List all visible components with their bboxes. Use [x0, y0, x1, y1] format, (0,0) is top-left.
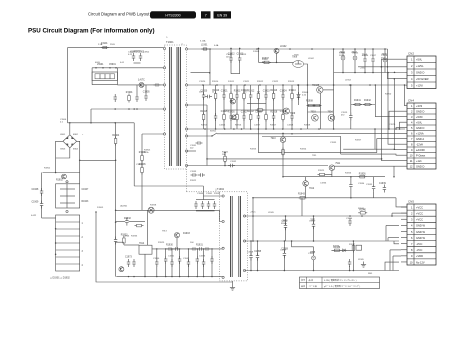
- junction J box2 p2: [55, 242, 57, 244]
- wire aux left vert: [141, 134, 143, 210]
- wire mvcc cn5 7: [390, 249, 401, 251]
- wire lamp wire: [116, 210, 222, 221]
- svg-text:C1936: C1936: [320, 183, 327, 185]
- svg-text:R1902: R1902: [56, 180, 63, 182]
- resistor R1941: [353, 103, 362, 106]
- wire c1917 top: [372, 49, 374, 56]
- wire T1 pin5 wire: [142, 133, 163, 135]
- wire v350 reg: [350, 177, 352, 182]
- T1901 pin 11: [185, 150, 187, 152]
- svg-text:CN2: CN2: [408, 52, 414, 56]
- link L1901: [201, 48, 209, 50]
- resistor Rx8: [265, 113, 268, 122]
- wire c1916 bot: [364, 64, 366, 73]
- wire forest column 8: [265, 85, 267, 129]
- svg-text:7904: 7904: [328, 112, 334, 114]
- svg-text:C1943: C1943: [199, 256, 206, 258]
- wire cap column 4: [188, 249, 190, 277]
- svg-text:R1930: R1930: [166, 244, 173, 246]
- junction dots on low rail: [204, 128, 334, 130]
- wire bus to CN4 12b: [393, 166, 395, 177]
- svg-text:CN4: CN4: [408, 99, 414, 103]
- wire cap C1901 bot tie: [134, 62, 141, 64]
- svg-text:C1966: C1966: [123, 236, 130, 238]
- snubber box 7901: [56, 184, 80, 208]
- svg-text:7909: 7909: [290, 113, 296, 115]
- svg-text:C1942: C1942: [183, 258, 190, 260]
- svg-text:+12v: +12v: [416, 159, 422, 163]
- junction J box2 p3: [55, 254, 57, 256]
- transformer T1902: [215, 188, 241, 277]
- snubber internals: [60, 184, 75, 208]
- svg-text:C1932: C1932: [230, 161, 237, 163]
- resistor Rx4: [236, 113, 239, 122]
- junction J mv1: [250, 270, 252, 272]
- junction J d1907: [298, 84, 300, 86]
- svg-text:C1933: C1933: [190, 171, 197, 173]
- svg-text:R1913: R1913: [270, 90, 277, 92]
- wire cn5 pin2 v: [391, 213, 393, 216]
- svg-text:+5VL: +5VL: [416, 120, 423, 124]
- label 7911: [335, 163, 341, 165]
- diode D1907: [297, 92, 300, 100]
- wire snub tie bot: [231, 73, 240, 75]
- wire return to t2 area: [134, 185, 203, 187]
- wire v253: [252, 198, 254, 241]
- svg-text:GND D: GND D: [416, 109, 424, 113]
- junction J cn2 394: [394, 72, 396, 74]
- junction J vcc1: [285, 215, 287, 217]
- label rung3: [82, 251, 84, 253]
- connector CN5: [407, 200, 436, 266]
- IC7902 internal rungs: [56, 222, 80, 264]
- svg-text:R1940: R1940: [358, 208, 365, 210]
- svg-text:D1903: D1903: [183, 233, 190, 235]
- junction bridge bus J3: [114, 122, 116, 124]
- wire pin10 switch wire: [187, 135, 213, 137]
- svg-text:6903: 6903: [60, 149, 66, 151]
- capacitor C1972: [204, 247, 211, 250]
- capacitor C1934: [349, 182, 352, 190]
- wire primary lower bus: [91, 108, 165, 110]
- junction J r1921a: [224, 152, 226, 154]
- svg-text:C1923: C1923: [263, 90, 270, 92]
- capacitor C1921: [221, 90, 228, 100]
- wire c1955 bot: [313, 262, 315, 270]
- capacitor C1966: [114, 237, 117, 245]
- wire ic feed: [116, 241, 124, 243]
- svg-text:C1901: C1901: [128, 52, 135, 54]
- wire mvcc cn5 8b: [392, 256, 394, 271]
- svg-text:GND D: GND D: [416, 126, 424, 130]
- wire c1918 top: [384, 49, 386, 56]
- svg-text:0.6A: 0.6A: [214, 44, 219, 47]
- transistor 7904: [328, 115, 335, 122]
- svg-text:C1912: C1912: [226, 54, 233, 56]
- wire sec top rail: [188, 48, 388, 50]
- wire sec low rail: [187, 128, 406, 130]
- svg-text:C1950: C1950: [281, 221, 288, 223]
- wire vcc rail: [245, 215, 408, 217]
- label L1901: [201, 45, 208, 47]
- inductor L1902: [274, 48, 279, 53]
- svg-text:R1917: R1917: [270, 125, 277, 127]
- wire t2 area drop: [203, 186, 223, 196]
- wire c1950 col: [285, 216, 287, 241]
- junction J outb3: [364, 72, 366, 74]
- svg-text:C5901: C5901: [109, 64, 116, 66]
- svg-text:L1902: L1902: [308, 58, 315, 60]
- T1902 pin5: [243, 215, 245, 217]
- wire gndw vert: [385, 226, 387, 242]
- wire CN5 pin3 stub: [401, 218, 407, 220]
- wire ctl drop: [333, 90, 335, 129]
- svg-text:R1912: R1912: [248, 90, 255, 92]
- wire bus to CN4 pin7: [377, 139, 407, 153]
- junction J vcc2: [313, 215, 315, 217]
- wire gnd stub: [232, 281, 234, 285]
- svg-text:C1970: C1970: [389, 124, 396, 126]
- svg-text:C1907: C1907: [136, 164, 143, 166]
- transistor 7909: [283, 108, 289, 114]
- wire forest column 5: [243, 85, 245, 129]
- wire bus to CN2 pin2: [358, 66, 407, 68]
- chassis mark W: [361, 262, 366, 268]
- wire snub branch h: [259, 61, 294, 63]
- label NTC: [138, 79, 145, 82]
- T1902 pin6: [243, 240, 245, 242]
- wire c1914 top: [342, 49, 344, 54]
- svg-text:C1934: C1934: [358, 183, 365, 185]
- wire c1956 col: [349, 266, 351, 271]
- svg-text:R1931: R1931: [196, 244, 203, 246]
- svg-text:250V: 250V: [110, 44, 115, 46]
- wire reg drop1: [331, 171, 333, 177]
- capacitor Cx1: [214, 113, 217, 121]
- wire c1957b col: [257, 241, 259, 271]
- svg-text:P-Down: P-Down: [416, 153, 426, 157]
- wire bus to CN4 pin5: [396, 128, 407, 129]
- junction J v253c: [252, 197, 254, 199]
- label rung4: [82, 265, 84, 267]
- junction J v350b: [350, 197, 352, 199]
- transistor 7910: [280, 137, 286, 143]
- capacitor C1958a: [249, 253, 252, 261]
- wire v3075: [307, 85, 309, 129]
- junction dots fb wire: [156, 248, 213, 249]
- capacitor R1912: [248, 90, 255, 100]
- resistor R1933: [121, 235, 128, 246]
- svg-text:R1905: R1905: [144, 150, 151, 152]
- wire inlet vertical: [41, 173, 43, 219]
- wire cn5 pin1 vert: [396, 198, 407, 207]
- junction J mv2: [257, 270, 259, 272]
- wire CN5 pin7 stub: [401, 243, 407, 245]
- svg-text:J1905: J1905: [358, 259, 365, 261]
- svg-text:C1915: C1915: [352, 53, 359, 55]
- standby section dotted box: [220, 192, 248, 281]
- resistor R1914: [289, 90, 296, 101]
- resistor Rx3: [230, 92, 233, 101]
- wire neutral rail: [117, 84, 163, 86]
- wire CN5 pin2 stub: [401, 212, 407, 214]
- svg-text:R1937: R1937: [349, 244, 356, 246]
- resistor R1932: [135, 224, 144, 227]
- capacitor C1945: [196, 256, 199, 264]
- wire lower bus drop: [90, 109, 92, 123]
- svg-text:+VCC: +VCC: [416, 211, 423, 215]
- resistor R1905: [139, 152, 146, 163]
- svg-text:L1901: L1901: [201, 45, 208, 47]
- capacitor C1922: [196, 141, 203, 144]
- svg-text:1000μ: 1000μ: [339, 55, 346, 57]
- junction J v375: [374, 128, 376, 130]
- wire ic feed2: [124, 244, 139, 246]
- label 7909: [290, 113, 296, 115]
- svg-text:+3V3: +3V3: [416, 104, 423, 108]
- wire r1908 wire: [308, 105, 321, 107]
- wire bridge top lead: [69, 123, 71, 135]
- svg-text:R1908: R1908: [302, 92, 309, 94]
- svg-text:+12VA: +12VA: [416, 131, 424, 135]
- svg-text:GND A: GND A: [416, 137, 424, 141]
- line filter L5901: [92, 72, 117, 81]
- wire bus to CN4 pin11: [382, 67, 407, 161]
- wire forest h104: [247, 103, 266, 105]
- resistor R1917: [248, 111, 255, 122]
- junction dots bottom wire: [128, 276, 213, 277]
- wire forest column 1: [215, 85, 217, 129]
- capacitor C1916: [362, 54, 368, 64]
- junction J r1921b: [224, 165, 226, 167]
- capacitor R1916: [228, 111, 235, 121]
- svg-text:C1905: C1905: [143, 91, 150, 93]
- wire q7910 col: [282, 143, 284, 177]
- svg-text:R1912: R1912: [257, 81, 264, 83]
- capacitor C1947: [210, 256, 213, 264]
- svg-text:GND D: GND D: [416, 71, 424, 75]
- svg-text:C1921: C1921: [243, 81, 250, 83]
- svg-text:C1940: C1940: [153, 258, 160, 260]
- junction J out5: [384, 48, 386, 50]
- wire v373 regb: [373, 192, 375, 198]
- wire dist 152: [258, 129, 376, 153]
- svg-text:D1911: D1911: [228, 81, 235, 83]
- junction J snub: [258, 48, 260, 50]
- resistor R1927: [282, 148, 285, 157]
- junction filter J2: [102, 67, 104, 69]
- wire primary return bus: [133, 123, 135, 186]
- capacitor C1931: [205, 95, 212, 98]
- capacitor C1940: [155, 259, 158, 267]
- svg-text:△ D1901 △ D1902: △ D1901 △ D1902: [50, 277, 70, 280]
- label R1902: [56, 180, 63, 182]
- wire left rail low: [43, 172, 80, 174]
- label R1908: [306, 101, 313, 103]
- wire c1914 bot: [342, 63, 344, 73]
- wire reg drop2: [305, 177, 307, 181]
- svg-text:2.5A: 2.5A: [98, 43, 103, 46]
- T1901 pin 2: [163, 67, 165, 69]
- transistor 7913: [174, 233, 179, 238]
- junction J v253b: [252, 240, 254, 242]
- capacitor C1932: [228, 164, 235, 167]
- junction J mv3: [284, 270, 286, 272]
- svg-text:GND W: GND W: [416, 236, 425, 240]
- wire forest column 6: [250, 85, 252, 129]
- wire bridge top bus: [68, 122, 135, 124]
- wire bus to CN2 pin1: [381, 58, 407, 60]
- capacitor C1974: [132, 259, 135, 267]
- svg-text:EN 39: EN 39: [217, 14, 227, 18]
- wire r1941 wire: [351, 104, 376, 106]
- capacitor C1913: [237, 53, 244, 63]
- junction J mv4: [313, 270, 315, 272]
- wire inlet stub bot: [42, 217, 56, 219]
- capacitor C1956: [348, 259, 351, 267]
- junction J gw3: [284, 240, 286, 242]
- svg-text:C1960: C1960: [197, 193, 204, 195]
- T1901 pin 7: [185, 84, 187, 86]
- label C1973: [125, 257, 132, 259]
- fuse F1901: [101, 47, 109, 49]
- svg-text:R1934: R1934: [214, 193, 221, 195]
- svg-text:C1924: C1924: [280, 90, 287, 92]
- svg-text:C1954: C1954: [346, 218, 353, 220]
- svg-text:C1921: C1921: [221, 90, 228, 92]
- wire r1937 col: [352, 241, 354, 271]
- label rung2: [82, 237, 84, 239]
- wire filter left drop: [91, 68, 93, 85]
- T1901 pin 10: [185, 135, 187, 137]
- junction J d149: [394, 148, 396, 150]
- wire AC left vertical: [67, 48, 69, 123]
- svg-text:C1951: C1951: [309, 221, 316, 223]
- svg-text:C1908: C1908: [32, 189, 39, 191]
- junction J bus 210: [115, 210, 117, 212]
- wire d1907 col: [298, 85, 300, 105]
- transistor 7912: [303, 181, 309, 187]
- capacitor C1935: [372, 184, 375, 192]
- svg-text:eA/OFF: eA/OFF: [416, 148, 425, 152]
- junction filter J3: [109, 67, 111, 69]
- junction bridge bus J2: [90, 122, 92, 124]
- wire gndw cn5 5: [388, 237, 399, 239]
- wire pin11 stub: [187, 150, 197, 152]
- svg-text:C1958: C1958: [254, 251, 261, 253]
- wire bus to CN4 pin12: [334, 165, 407, 167]
- wire q7906 right lead: [304, 64, 308, 85]
- resistor R1908: [307, 104, 316, 107]
- label rung1: [82, 223, 84, 225]
- transistor 7901 FET: [317, 87, 323, 93]
- svg-text:No 12V: No 12V: [416, 260, 425, 264]
- wire fet drain: [333, 49, 335, 90]
- svg-text:R1918: R1918: [304, 125, 311, 127]
- header model box HTS3300: [150, 11, 196, 18]
- svg-text:C1922: C1922: [272, 81, 279, 83]
- T1901 pin 3: [163, 84, 165, 86]
- wire dist 149: [343, 148, 394, 150]
- capacitor C1939: [383, 185, 386, 193]
- junction J out3: [364, 48, 366, 50]
- wire snub vert: [209, 49, 211, 85]
- resistor R1943: [298, 197, 307, 200]
- svg-text:0.022: 0.022: [31, 215, 37, 217]
- svg-text:C1973: C1973: [125, 257, 132, 259]
- svg-text:L1902: L1902: [280, 46, 287, 48]
- junction J cn4 389: [388, 128, 390, 130]
- wire fb wire: [152, 248, 222, 250]
- T1902 pin3: [222, 247, 224, 249]
- junction J cn4 381b: [381, 158, 383, 160]
- svg-text:L1904: L1904: [345, 80, 352, 82]
- junction J cn5 392: [391, 215, 393, 217]
- header: manual page strip text: [88, 12, 150, 17]
- wire vcc top link: [253, 197, 396, 199]
- junction J sec5: [333, 48, 335, 50]
- wire fet source: [320, 93, 322, 129]
- T1902 pin7: [243, 269, 245, 271]
- svg-text:-VCC: -VCC: [416, 248, 422, 252]
- header section box EN 39: [214, 11, 232, 18]
- junction filter J4: [115, 67, 117, 69]
- resistor R1936: [332, 247, 341, 251]
- wire v207: [206, 105, 208, 166]
- capacitor C1941: [164, 256, 167, 264]
- wire reg drop3: [305, 186, 307, 198]
- wire AC live top rail: [68, 47, 164, 49]
- junction J lower bus b: [128, 108, 130, 110]
- capacitor C1946: [202, 259, 205, 267]
- svg-text:GND W: GND W: [416, 230, 425, 234]
- wire c1918 bot: [384, 65, 386, 73]
- wire bus to CN4 pin1: [405, 85, 408, 106]
- junction dots on mid rail: [202, 84, 371, 86]
- capacitor R1918: [270, 111, 277, 121]
- capacitor C1969: [173, 247, 180, 250]
- svg-text:+5VL: +5VL: [416, 58, 423, 62]
- wire bus to CN4 pin8: [388, 73, 407, 145]
- transformer T1901 isolation dotted box: [165, 45, 187, 169]
- svg-text:R1933: R1933: [131, 236, 138, 238]
- label 7912: [309, 188, 315, 190]
- svg-text:S1901: S1901: [210, 131, 217, 133]
- label C1907: [82, 189, 89, 191]
- wire cap column 5: [196, 249, 198, 277]
- svg-text:+VDD: +VDD: [416, 254, 423, 258]
- svg-text:C1926: C1926: [219, 125, 226, 127]
- wire filter right drop: [116, 68, 118, 85]
- junction J pin6b: [282, 133, 284, 135]
- page title: [28, 27, 155, 34]
- capacitor C1918: [382, 54, 388, 65]
- wire filter top rail: [92, 67, 163, 69]
- svg-text:R1913: R1913: [288, 81, 295, 83]
- junction J c1912: [230, 48, 232, 50]
- svg-text:C1914: C1914: [339, 53, 346, 55]
- wire sub wire 222: [116, 221, 145, 223]
- label 7904: [328, 112, 334, 114]
- wire pin10 wire cont: [221, 133, 292, 135]
- capacitor C1960: [194, 201, 197, 209]
- wire bridge right lead: [77, 141, 80, 184]
- wire cap column 3: [179, 249, 181, 277]
- wire ic bottom: [144, 254, 146, 276]
- capacitor C1963: [213, 201, 216, 209]
- transistor 7903: [312, 115, 319, 122]
- opto coupler 7907: [230, 99, 235, 104]
